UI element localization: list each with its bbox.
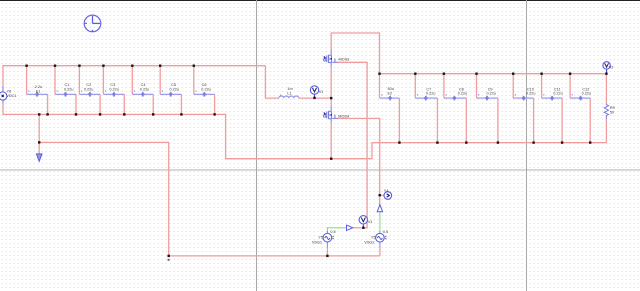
svg-text:Y6: Y6 (7, 89, 12, 93)
svg-text:50u: 50u (388, 87, 394, 91)
svg-text:0.5: 0.5 (383, 230, 388, 234)
svg-text:0.22u: 0.22u (201, 87, 211, 91)
svg-text:V2: V2 (609, 65, 614, 69)
svg-text:0.22u: 0.22u (170, 87, 180, 91)
svg-text:MOS3: MOS3 (339, 58, 350, 62)
svg-text:0.22u: 0.22u (64, 87, 74, 91)
svg-text:E1: E1 (36, 90, 41, 94)
svg-text:0.22u: 0.22u (553, 92, 563, 96)
svg-text:Y5: Y5 (318, 236, 323, 240)
svg-text:VDC1: VDC1 (6, 94, 16, 98)
svg-text:0.22u: 0.22u (458, 92, 468, 96)
svg-text:MOS4: MOS4 (338, 114, 349, 118)
svg-text:2.2u: 2.2u (35, 85, 42, 89)
svg-text:0.22u: 0.22u (109, 87, 119, 91)
svg-text:50: 50 (610, 111, 614, 115)
svg-text:Y4: Y4 (384, 189, 389, 193)
svg-text:Y5: Y5 (371, 236, 376, 240)
svg-text:VSG2: VSG2 (364, 241, 374, 245)
svg-text:0.5: 0.5 (330, 230, 335, 234)
svg-text:C3: C3 (110, 83, 115, 87)
svg-text:C6: C6 (202, 83, 207, 87)
svg-text:VSG1: VSG1 (312, 241, 322, 245)
svg-text:0.22u: 0.22u (487, 92, 497, 96)
svg-text:C5: C5 (171, 83, 176, 87)
svg-text:0.22u: 0.22u (582, 92, 592, 96)
svg-text:C2: C2 (86, 83, 91, 87)
svg-text:C1: C1 (65, 83, 70, 87)
svg-text:V1: V1 (319, 90, 324, 94)
svg-text:C4: C4 (141, 83, 146, 87)
svg-text:0.22u: 0.22u (426, 92, 436, 96)
svg-text:0.22u: 0.22u (526, 92, 536, 96)
svg-text:L1: L1 (287, 91, 291, 95)
svg-text:E2: E2 (388, 92, 393, 96)
svg-text:0.22u: 0.22u (140, 87, 150, 91)
svg-text:V1: V1 (368, 220, 373, 224)
svg-text:0.22u: 0.22u (84, 87, 94, 91)
